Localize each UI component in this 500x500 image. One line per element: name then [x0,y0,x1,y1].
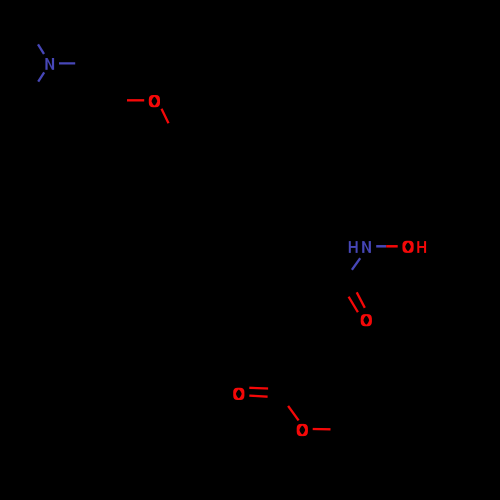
bond N2-O2 red half [386,245,398,248]
bond C-O5 ester (red half, down-right) [288,406,299,421]
atom N2 label N of HN (hydroxamic nitrogen) [362,241,371,253]
bond N1-CH3 upper-left (blue half) [38,44,44,54]
atom N2 label H of HN [349,241,358,253]
atom N1 (dimethylamino nitrogen) [45,58,54,70]
atom O2 label O of OH (hydroxyl oxygen) [402,241,413,253]
atom O3 (amide carbonyl oxygen) [361,314,372,326]
double bond C=O3 line 2 (red half) [349,297,358,313]
atom O2 label H of OH [417,241,426,253]
double bond C=O3 line 1 (red half) [357,292,365,308]
double bond O4=C line 1 top (red half) [249,387,268,390]
bond N2-O2 blue half [376,245,386,248]
atom O4 (ester carbonyl oxygen) [233,388,244,400]
bond N1-CH2 (blue half, horizontal) [59,62,75,64]
bond O5-CH (red half, horizontal) [313,428,331,431]
bond CH2-O1 (red half, horizontal) [127,99,144,101]
bond N1-CH3 lower-left (blue half) [38,72,44,81]
bond N2-C carbonyl (blue half, down-left) [352,258,360,270]
double bond O4=C line 2 bottom (red half) [249,396,267,397]
atom O1 (ether oxygen) [149,95,160,107]
atom O5 (ester oxygen) [297,424,308,436]
bond O1-C aryl (red half, down-right) [162,109,169,124]
